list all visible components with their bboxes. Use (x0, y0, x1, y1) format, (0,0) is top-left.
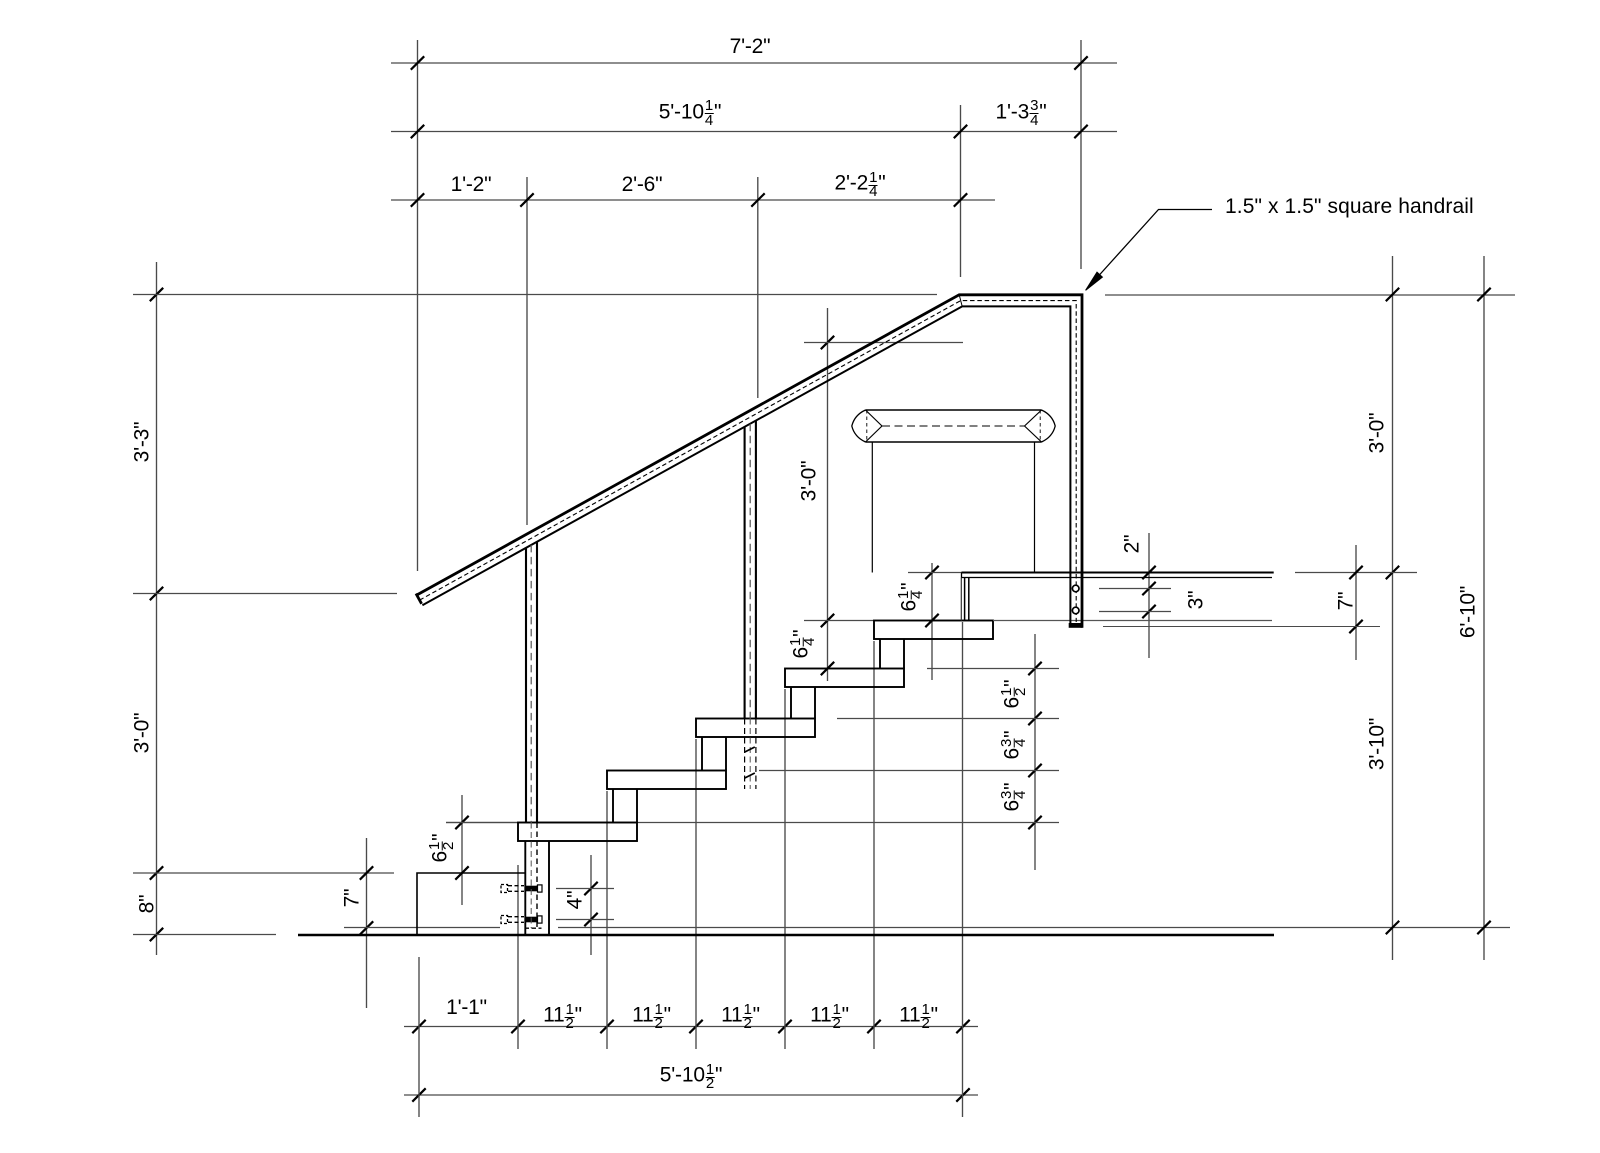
screw hole (lower) in post (1072, 607, 1079, 614)
ground line (298, 934, 1274, 937)
handrail dashed centerline (420, 301, 1077, 622)
dimension line 7'-2" (391, 56, 1117, 69)
extension line at x=417.5 (left end of stair run) (417, 40, 419, 571)
perpendicular handrail section with chamfered ends (852, 410, 1055, 442)
label 6 1/2" (risers) (994, 680, 1023, 709)
label 3'-3" (131, 422, 152, 463)
label 11 1/2" #4 (810, 997, 849, 1026)
label 11 1/2" #3 (721, 997, 760, 1026)
bolt through footing at y=888.5 (501, 885, 542, 893)
label 2'-2 1/4" (835, 165, 886, 194)
extension line at y=668.5 (tread 4 top) (927, 668, 1059, 670)
extension line at y=770.5 (tread 2 top) (759, 770, 1059, 772)
label 6 1/2" (left) (422, 834, 451, 863)
label 6 3/4" (risers lower) (994, 782, 1023, 811)
handrail miter joint at bend (959, 295, 962, 307)
bottom dimension line 5'-10 1/2" (404, 1088, 978, 1101)
extension line at y=927.5 (ground level, right) (344, 927, 1510, 929)
riser dimension line (6 1/2", 6 3/4", 6 3/4") (1028, 634, 1041, 870)
handrail end cap (416, 594, 422, 604)
label 3'-0" (left) (131, 713, 152, 754)
tread 5 (874, 621, 993, 640)
extension line at x=758 (second baluster) (757, 177, 759, 398)
label 1.5 x 1.5 square handrail (1225, 196, 1474, 217)
screw hole (upper) in post (1072, 585, 1079, 592)
extension line at y=873 (top of footing) (133, 872, 394, 874)
extension line at y=626.5 (bottom of rail post) (1103, 626, 1380, 628)
label 6'-10" (1458, 586, 1479, 638)
tread 3 (696, 719, 815, 738)
extension line at y=822.5 to first tread (446, 822, 518, 824)
riser board under landing (961, 578, 969, 621)
label 11 1/2" #1 (543, 997, 582, 1026)
extension line at y=718.5 (tread 3 top) (837, 718, 1059, 720)
extension line at y=822.5 (tread 1 top) (446, 822, 1059, 824)
label 1'-3 3/4" (996, 94, 1047, 123)
label 4" (564, 891, 585, 910)
edge line below landing (993, 620, 1272, 622)
label 3'-0" (right) (1367, 412, 1388, 453)
baluster 2 (at third tread) (745, 421, 756, 719)
landing slab (962, 573, 1274, 578)
label 7" (left) (341, 888, 362, 907)
dimension line 1'-2" / 2'-6" / 2'-2 1/4" (391, 193, 995, 206)
dimension line 7" (footing) (360, 838, 373, 1008)
tread 1 (518, 823, 637, 842)
baluster 1 (at first tread) (526, 542, 537, 823)
extension line at y=934.5 (ground, left) (133, 934, 276, 936)
label 7" (right) (1335, 592, 1356, 611)
support post under tread 1 (525, 841, 549, 935)
riser support under tread 3 (702, 737, 726, 771)
left vertical dimension line (3'-3", 3'-0", 8") (150, 262, 163, 955)
label 11 1/2" #5 (899, 997, 938, 1026)
handrail outer line (417, 295, 1082, 628)
riser support under tread 4 (791, 687, 815, 719)
middle dimension line 3'-0" and 6 1/4" (804, 308, 963, 681)
label 3'-10" (1367, 718, 1388, 770)
dimension line 2" and 3" (post holes) (1099, 533, 1171, 658)
label 7'-2" (730, 36, 771, 57)
riser support under tread 5 (880, 639, 904, 669)
extension line at y=295 (top of handrail, right) (1105, 294, 1515, 296)
extension line at y=294.5 (top of handrail) (133, 294, 937, 296)
dimension line 4" (bolt spacing) (556, 855, 614, 955)
label 3'-0" (middle) (798, 460, 819, 501)
handrail inner line (422, 306, 1070, 623)
label 2'-6" (622, 174, 663, 195)
baluster 1 hidden part (dashed) (525, 823, 542, 929)
tread 4 (785, 669, 904, 688)
extension line at x=419 (418, 957, 420, 1117)
dimension line 5'-10 1/4" and 1'-3 3/4" (391, 125, 1117, 138)
label 5'-10 1/4" (659, 94, 721, 123)
bolt through footing at y=919.5 (501, 916, 542, 924)
footing (concrete pad) (417, 873, 525, 935)
label 1'-2" (451, 174, 492, 195)
tread 2 (607, 771, 726, 790)
balusters below perpendicular rail (872, 442, 1034, 573)
dimension line 6 1/2" (first step height) (455, 795, 468, 905)
extension lines at tread noses (518, 622, 963, 1117)
bottom dimension line (1'-1" and 11 1/2" treads) (404, 1020, 978, 1033)
label 8" (137, 894, 158, 913)
bolt marks on baluster 2 (745, 747, 755, 778)
label 6 3/4" (risers upper) (994, 730, 1023, 759)
handrail post bottom cap (1069, 623, 1083, 628)
label 2" (1121, 535, 1142, 554)
label 1'-1" (446, 997, 487, 1018)
label 6 1/4" (middle) (782, 630, 811, 659)
extension line at x=527 (first baluster) (526, 177, 528, 525)
baluster 2 hidden part (dashed) (745, 719, 756, 790)
label 5'-10 1/2" (660, 1057, 722, 1086)
extension line at x=1081 (handrail post) (1080, 40, 1082, 269)
label 3" (1186, 590, 1207, 609)
dimension line 6 1/4" (landing riser) (908, 563, 962, 680)
extension line at y=593.5 (lower end of handrail) (133, 593, 397, 595)
extension line at x=960.5 (top of stair) (960, 105, 962, 277)
label 6 1/4" (landing) (891, 582, 920, 611)
label 11 1/2" #2 (632, 997, 671, 1026)
dimension line 7" (right, landing to rail end) (1349, 545, 1362, 660)
right dimension line 6'-10" (1477, 256, 1490, 960)
leader arrow to handrail (1086, 210, 1212, 291)
extension line at y=572.5 (landing, right) (1295, 572, 1417, 574)
right dimension line (3'-0" / 3'-10") (1386, 256, 1399, 960)
riser support under tread 2 (613, 789, 637, 823)
